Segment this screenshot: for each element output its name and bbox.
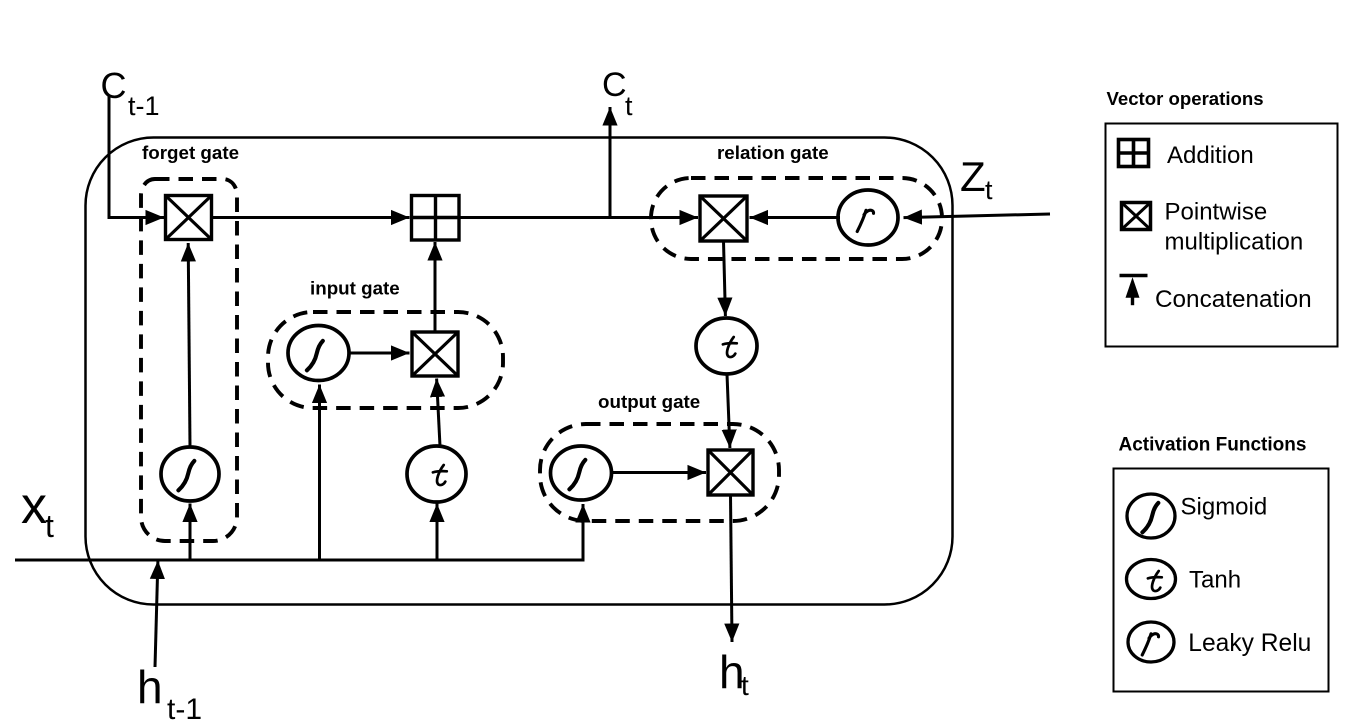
svg-text:h: h: [137, 661, 163, 713]
svg-text:forget gate: forget gate: [142, 142, 239, 163]
svg-text:Vector operations: Vector operations: [1107, 88, 1264, 109]
svg-text:Sigmoid: Sigmoid: [1181, 494, 1268, 521]
svg-text:t-1: t-1: [128, 91, 160, 121]
svg-text:C: C: [101, 65, 127, 106]
svg-text:multiplication: multiplication: [1165, 229, 1304, 256]
svg-text:output gate: output gate: [598, 391, 700, 412]
svg-text:t-1: t-1: [167, 693, 202, 723]
svg-text:relation gate: relation gate: [717, 142, 829, 163]
svg-text:Leaky Relu: Leaky Relu: [1188, 630, 1311, 657]
svg-text:x: x: [21, 477, 47, 535]
svg-text:Tanh: Tanh: [1189, 567, 1241, 594]
svg-text:t: t: [45, 508, 54, 544]
svg-text:Z: Z: [960, 153, 986, 200]
svg-text:t: t: [625, 91, 633, 121]
svg-text:Activation Functions: Activation Functions: [1119, 435, 1307, 456]
svg-text:Pointwise: Pointwise: [1165, 199, 1268, 226]
svg-text:input gate: input gate: [310, 278, 400, 299]
svg-text:t: t: [985, 175, 993, 205]
svg-text:Addition: Addition: [1167, 142, 1254, 169]
svg-text:Concatenation: Concatenation: [1155, 286, 1312, 313]
svg-text:C: C: [602, 66, 627, 104]
svg-text:t: t: [741, 670, 749, 701]
